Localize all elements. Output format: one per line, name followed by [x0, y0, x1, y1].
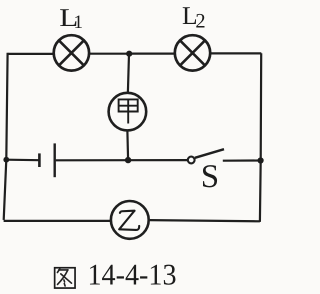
meter yi (ammeter) circle: [111, 201, 149, 239]
meter jia glyph (Chinese jia character): [119, 99, 138, 124]
wire top between node A and L2: [129, 52, 174, 54]
wire battery to switch through node B: [56, 159, 188, 161]
wire right vertical: [260, 53, 261, 222]
wire bottom left: [4, 220, 110, 222]
wire top-right horizontal: [211, 52, 261, 54]
caption: figure character tu box: [55, 268, 75, 288]
meter yi glyph (Chinese yi character): [119, 210, 139, 230]
svg-text:S: S: [201, 159, 219, 195]
wire left vertical: [4, 53, 8, 220]
svg-text:1: 1: [74, 12, 84, 33]
caption: tu inner strokes (dong): [57, 269, 71, 286]
label L1: [59, 3, 83, 33]
svg-text:14-4-13: 14-4-13: [88, 258, 177, 291]
svg-text:2: 2: [195, 11, 205, 33]
lamp L1: [54, 35, 89, 70]
meter jia (ammeter) circle: [109, 93, 147, 131]
battery negative plate (short): [38, 153, 41, 167]
node B junction dot: [125, 157, 131, 163]
wire top between L1 and node A: [90, 53, 130, 55]
switch S lever: [195, 149, 224, 158]
wire bottom right: [150, 220, 260, 221]
switch S pivot circle: [188, 157, 195, 164]
wire meter jia bottom lead to node B: [126, 132, 129, 161]
node A junction dot: [126, 51, 132, 57]
node D junction dot (right): [258, 157, 264, 163]
wire top-left horizontal: [8, 53, 54, 55]
node C junction dot (left): [3, 157, 9, 163]
lamp L2: [175, 35, 210, 70]
battery positive plate (long): [54, 143, 56, 177]
wire middle left to battery: [6, 159, 39, 162]
wire node A to meter jia top lead: [128, 54, 129, 92]
wire switch stub to node D: [223, 159, 261, 161]
label L2: [182, 1, 206, 33]
